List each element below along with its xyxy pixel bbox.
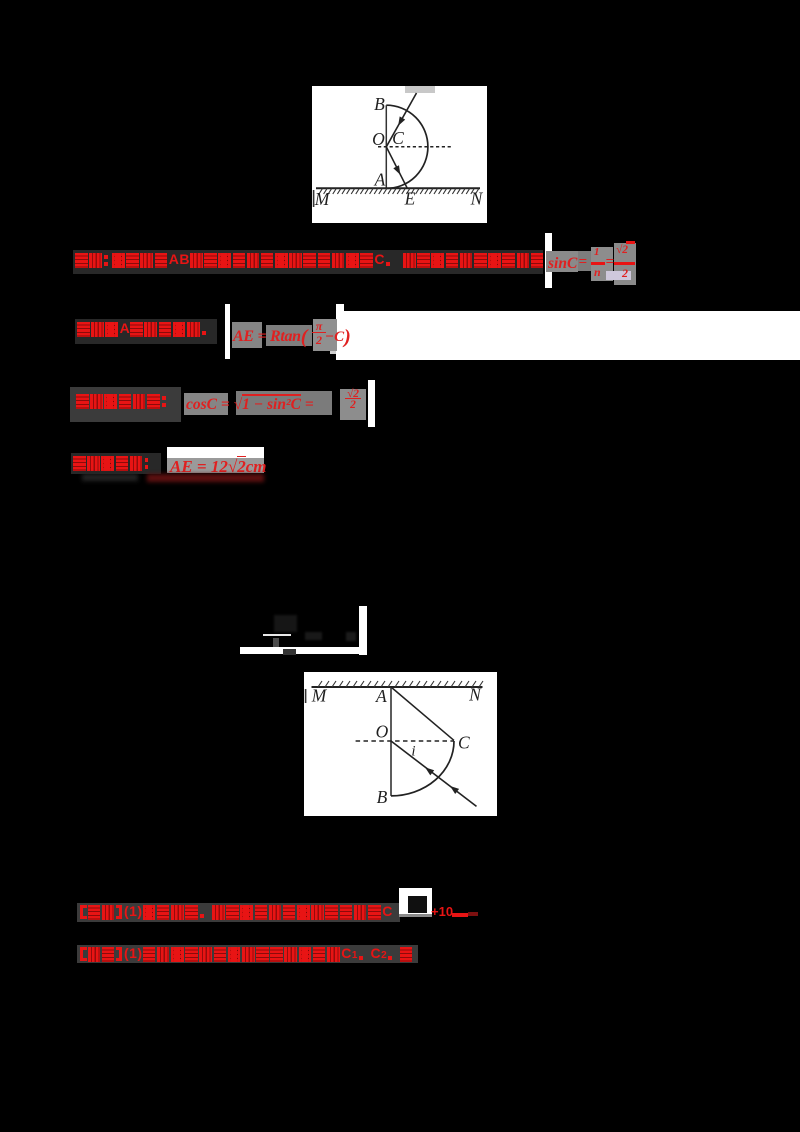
vertical line AB bbox=[390, 687, 392, 796]
white cursor bar line2 bbox=[225, 304, 230, 359]
quarter arc C to B bbox=[391, 741, 454, 796]
white cursor bar line1 bbox=[545, 233, 553, 289]
incident ray bbox=[386, 93, 416, 147]
svg-text:O: O bbox=[376, 721, 389, 741]
gray smudge top bbox=[405, 86, 435, 93]
svg-text:O: O bbox=[372, 129, 385, 149]
svg-text:E: E bbox=[404, 189, 416, 209]
formula 2: AE = Rtan(pi/2 - C) bbox=[232, 322, 262, 348]
svg-text:M: M bbox=[314, 189, 331, 209]
svg-text:C: C bbox=[458, 732, 470, 752]
dashed normal through O bbox=[378, 146, 453, 148]
white L bbox=[359, 606, 367, 655]
svg-text:A: A bbox=[374, 170, 386, 190]
white cursor bar line3 bbox=[368, 380, 375, 427]
formula 1: sinC = 1/n = sqrt2/2 (gray patches + red) bbox=[546, 251, 578, 272]
svg-text:A: A bbox=[375, 686, 387, 706]
chord A to C bbox=[391, 687, 454, 740]
formula 3: cosC = sqrt(1-sin^2C) = sqrt2/2 bbox=[184, 393, 228, 415]
labels bbox=[305, 684, 482, 806]
svg-text:B: B bbox=[374, 94, 385, 114]
dashed line through O to C bbox=[356, 740, 454, 742]
labels bbox=[313, 94, 484, 209]
ground line MN bbox=[316, 187, 480, 189]
ceiling line MN bbox=[312, 686, 483, 688]
diameter line BA bbox=[385, 105, 387, 188]
reflected ray O to E bbox=[386, 147, 407, 189]
ray through O bbox=[391, 741, 476, 806]
svg-text:B: B bbox=[377, 787, 388, 807]
svg-text:i: i bbox=[411, 743, 415, 759]
svg-text:M: M bbox=[311, 685, 328, 705]
ground hatching bbox=[319, 189, 479, 194]
ceiling hatching bbox=[318, 681, 483, 687]
semicircle arc bbox=[386, 105, 428, 188]
svg-text:N: N bbox=[468, 684, 482, 704]
big white band right of line2 bbox=[336, 304, 344, 360]
svg-text:N: N bbox=[470, 189, 484, 209]
svg-text:C: C bbox=[392, 128, 404, 148]
